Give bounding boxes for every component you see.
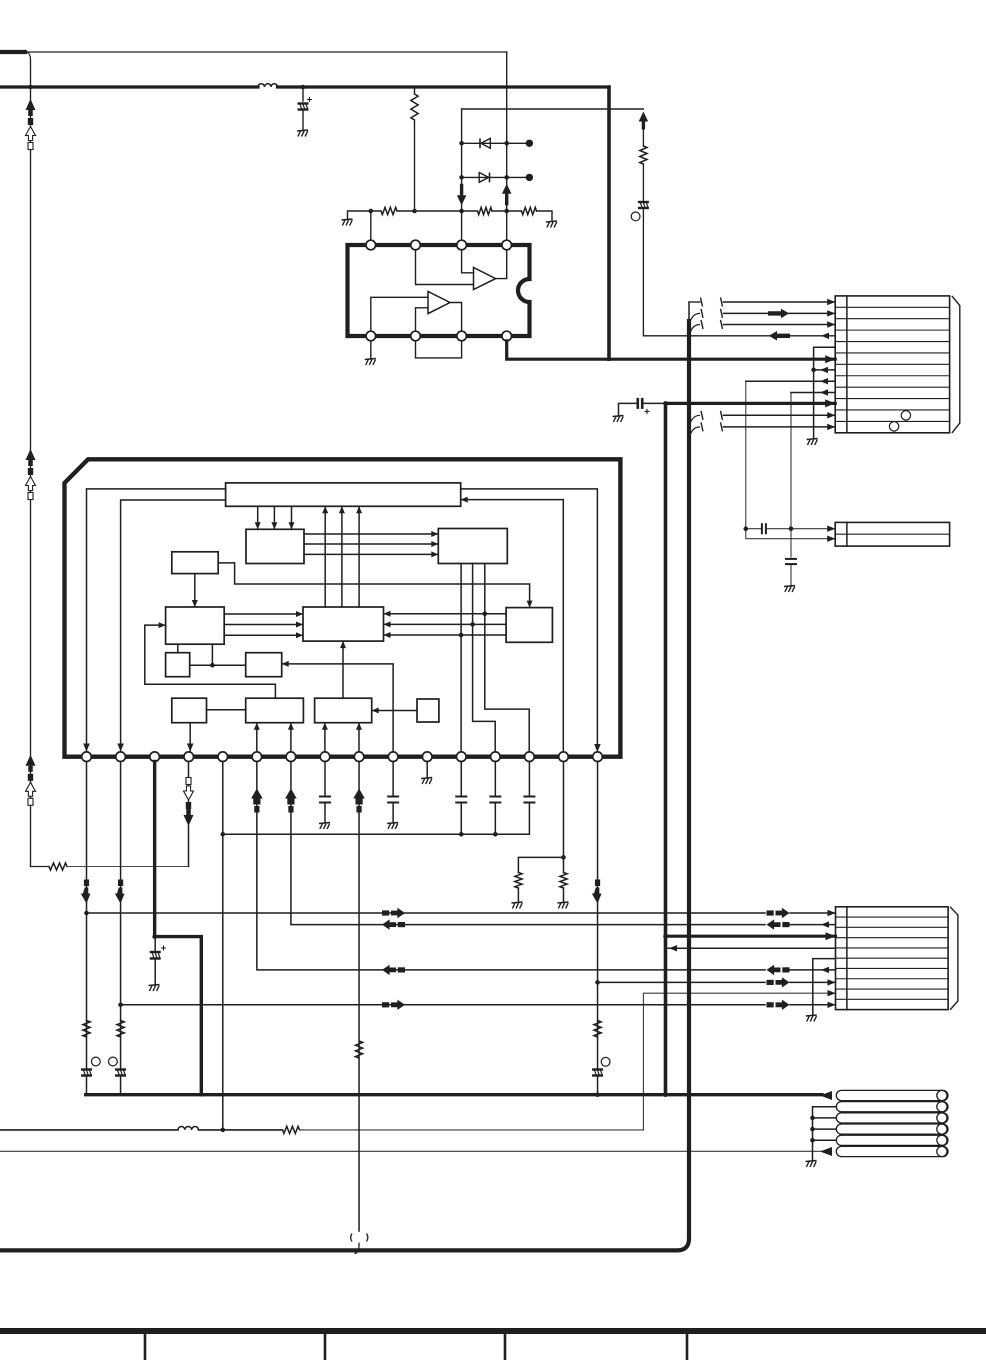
block arrow left row4: [769, 331, 790, 341]
node U2-13/rail: [493, 832, 498, 837]
fat arrow left row6 (mid): [382, 965, 405, 975]
cable curl left row2: [689, 309, 703, 327]
cable curl left row11: [689, 411, 703, 429]
wire CN3 row3 (thick): [666, 935, 836, 938]
wire U2-14 down: [528, 762, 530, 797]
wire CN1 row9: [791, 392, 835, 394]
wire U2-1 down: [86, 762, 88, 1070]
connector CN3 row lines: [836, 917, 949, 999]
wire top stub (thick): [0, 50, 25, 54]
resistor R6: [83, 1021, 90, 1038]
wire CN1 row2: [724, 312, 836, 314]
wire E to G: [218, 563, 532, 608]
arrow into F: [159, 622, 166, 628]
op-amp A1 triangle: [474, 268, 496, 290]
entry arrow CN1 row3: [827, 321, 835, 327]
wire U2-6 to K: [254, 723, 260, 752]
diode D2 (cathode right): [479, 173, 489, 183]
capacitor C12 (electrolytic): [638, 398, 650, 414]
resistor R8: [49, 863, 67, 870]
node U2-5/bottom line: [220, 1128, 225, 1133]
pin U2-12: [456, 752, 466, 762]
wire U2-15 down: [562, 762, 564, 873]
connector-arrow group U2-4 (down): [184, 778, 194, 827]
terminal dot D1: [526, 140, 533, 147]
node R-branch: [412, 209, 417, 214]
wire U2-9 tail hook: [355, 1243, 360, 1254]
ground R10: [512, 902, 523, 909]
node row8-drop/cap row: [744, 526, 749, 531]
connector CN3 key strip: [846, 907, 848, 1010]
capacitor C14: [785, 559, 797, 564]
capacitor C5 (electrolytic): [150, 952, 161, 959]
signal arrow up U2-7: [285, 789, 297, 813]
wire C5 to ground: [154, 959, 156, 985]
capacitor C2 (feedthrough): [638, 202, 649, 208]
capacitor C3 (feedthrough): [81, 1070, 92, 1076]
signal arrow down U2-1: [81, 880, 91, 904]
exit arrow CN1 row8: [820, 378, 828, 384]
wire caps rail: [223, 833, 529, 835]
ground C7: [387, 823, 398, 830]
wire H-I: [190, 664, 246, 666]
entry arrow CN2 row2: [827, 536, 835, 542]
wire shield vertical x=689 (thick): [0, 319, 689, 1250]
terminal dot D2: [526, 174, 533, 181]
node U2-12/rail: [459, 832, 464, 837]
signal arrow down U2-16: [592, 880, 602, 904]
node bus/C-branch: [301, 85, 306, 90]
ground C5: [149, 985, 160, 992]
block D (center): [303, 607, 384, 641]
resistor R9: [355, 1041, 362, 1058]
wire G-D 3: [384, 632, 507, 638]
capacitor C9: [489, 797, 501, 803]
wire U2-12 down: [460, 762, 462, 797]
arrow into block A: [461, 497, 468, 503]
node 665/bus: [663, 1092, 668, 1097]
exit arrow CN4 pill1: [820, 1091, 832, 1100]
wire C10 to rail: [528, 803, 530, 834]
signal arrow up U2-9: [353, 789, 365, 813]
node C1/GD3: [459, 633, 464, 638]
wire branch 643 lower: [643, 208, 835, 336]
wire thick vertical x=665.5: [664, 403, 668, 1094]
ground C1: [297, 130, 308, 137]
cable curl left row3: [689, 320, 703, 338]
pin U1-2 top: [411, 240, 421, 250]
entry arrow CN1 row11: [827, 412, 835, 418]
block B: [246, 529, 304, 563]
node C2/GD2: [470, 622, 475, 627]
pin U2-15: [559, 752, 569, 762]
wire U2-10 down: [392, 762, 394, 797]
arrow into U2-2: [117, 744, 124, 752]
node D1 left: [459, 141, 464, 146]
resistor R5 (vertical): [640, 146, 647, 164]
entry arrow CN1 row1: [827, 299, 835, 305]
wire CN1 row12: [724, 426, 836, 428]
wire U2-16 down: [597, 762, 599, 1070]
wire C8 to rail: [460, 803, 462, 834]
ground row-left: [342, 219, 353, 226]
block J: [172, 698, 207, 723]
cable tick right row12: [721, 422, 723, 431]
wire CN3 row9 b: [790, 1004, 836, 1006]
fat arrow right row1: [767, 908, 790, 918]
node shield/C5: [152, 934, 157, 939]
wire E to F: [192, 574, 198, 607]
connector CN4 pin 2: [836, 1102, 948, 1112]
wire CN1-row8 drop: [746, 381, 835, 539]
fat arrow right row7: [767, 977, 790, 987]
ground C6: [319, 823, 330, 830]
wire CN3 row1: [87, 912, 766, 914]
signal arrow up U2-6: [251, 789, 263, 813]
cable curl left row1: [689, 298, 703, 307]
frame title block dividers: [145, 1334, 687, 1360]
node U2-16/row7: [595, 980, 600, 985]
wire branch 643 upper: [642, 129, 644, 146]
wire CN1 row11: [724, 414, 836, 416]
resistor R11: [560, 873, 567, 889]
node 665/row3: [663, 934, 668, 939]
wire CN3 row1 b: [790, 912, 836, 914]
op-amp A2 triangle: [428, 292, 450, 314]
pin U1-6 bottom: [411, 331, 421, 341]
wire J to U2-4: [187, 723, 194, 752]
wire U2-10 to I: [283, 664, 393, 752]
ground C14: [784, 586, 795, 593]
entry arrow CN3 row7: [828, 979, 836, 985]
wire R11 to ground: [562, 888, 564, 902]
resistor R2: [381, 207, 397, 214]
connector CN2 row line: [835, 533, 949, 535]
wire CN3 row7: [598, 981, 765, 983]
wire G-D 1: [384, 611, 507, 617]
pin U2-6: [252, 752, 262, 762]
wire row6 to conn3: [790, 969, 836, 971]
connector CN4 pin 6: [836, 1146, 948, 1156]
pin U2-10: [388, 752, 398, 762]
wire F drop: [211, 644, 213, 665]
wire C-U2-14: [485, 564, 529, 753]
block A (top register): [226, 483, 461, 506]
fat arrow left row2: [767, 919, 790, 929]
resistor R7: [117, 1021, 124, 1038]
wire R3-R4: [492, 210, 522, 212]
node left vertical / top bus: [28, 85, 33, 90]
wire A2 in1: [371, 297, 428, 331]
wire A-B 3: [289, 506, 295, 529]
wire A1 in1: [462, 250, 474, 273]
main IC U2 outline: [65, 459, 621, 756]
wire C12 to node: [642, 402, 665, 404]
connector CN2 body: [835, 522, 949, 546]
wire B-C 1: [304, 531, 438, 537]
resistor R12: [594, 1021, 601, 1038]
resistor R10: [515, 873, 522, 889]
pin U2-4: [184, 752, 194, 762]
node U2-1/row1: [84, 911, 89, 916]
cable curl left row12: [689, 422, 703, 440]
wire bottom line 1 right: [300, 1129, 644, 1131]
entry arrow CN3 row3: [826, 932, 836, 940]
resistor R4: [522, 207, 537, 214]
exit arrow conn3 row2: [821, 921, 829, 927]
wire U2-9 to L: [356, 723, 362, 752]
connector CN4 pin 5: [836, 1135, 948, 1145]
frame title block line (thick): [0, 1328, 986, 1334]
wire R8 to U2-4: [67, 866, 189, 868]
wire A to U2-16: [461, 489, 598, 750]
wire CN1 row1: [724, 301, 836, 303]
pin U1-3 top: [457, 240, 467, 250]
node U2-16/bus: [595, 1092, 600, 1097]
signal arrow up (x=643.4): [639, 112, 649, 130]
resistor R3: [478, 207, 493, 214]
wire ground bus (thick): [86, 1093, 822, 1096]
exit arrow CN1 row9: [820, 389, 828, 395]
wire A1 in2: [416, 250, 474, 285]
pin U1-5 bottom: [366, 331, 376, 341]
wire CN1 row3: [724, 324, 836, 326]
pin U2-2: [116, 752, 126, 762]
wire U1-8 output (thick): [507, 341, 836, 359]
pin U2-13: [491, 752, 501, 762]
connector CN1 key strip: [846, 296, 848, 433]
wire R-branch top: [414, 87, 416, 94]
wire CN1 row7: [814, 369, 836, 371]
wire D1 row: [462, 142, 530, 144]
cable tick right row2: [721, 309, 723, 318]
wire C-U2-13: [473, 564, 496, 753]
connector CN3 body: [836, 907, 949, 1010]
wire B-C 2: [304, 541, 438, 547]
wire U2-7 to K: [288, 723, 294, 752]
wire C9 to rail: [494, 803, 496, 834]
wire R-branch down: [414, 120, 416, 211]
inductor L1 on top bus: [258, 84, 278, 87]
wire pin1-top riser: [370, 211, 372, 240]
wire top bus right segment (thick): [278, 85, 610, 88]
exit arrow conn3 row6: [821, 967, 829, 973]
wire bottom line 2: [0, 1150, 822, 1152]
wire row2 to conn3: [790, 924, 836, 926]
wire shield vertical x=689 (thin top): [688, 302, 690, 319]
pin U1-7 bottom: [457, 331, 467, 341]
wire thick row10 net: [666, 402, 836, 405]
wire U1 loop pins6-7: [416, 341, 462, 358]
node CN1 stub/row7: [811, 368, 816, 373]
ground CN3: [806, 1015, 817, 1022]
entry arrow CN1 row12: [827, 424, 835, 430]
wire R4 to ground: [537, 211, 553, 221]
wire CN1-row9 drop: [790, 393, 792, 558]
wire F-H: [177, 644, 179, 653]
connector CN4 pin 4: [836, 1124, 948, 1134]
wire diode ladder: [461, 109, 463, 240]
ground row-right: [546, 221, 557, 228]
diode D1 (cathode left): [480, 138, 490, 148]
wire thick vertical from bus: [607, 87, 611, 359]
node D1 right: [504, 141, 509, 146]
plus mark C5: [161, 946, 166, 951]
node row/pin4-line: [504, 209, 509, 214]
capacitor C1 (feedthrough): [298, 104, 309, 110]
wire U2-3 shield box (thick): [155, 762, 202, 1095]
exit arrow CN3 row4: [669, 945, 677, 951]
arrow into I: [282, 661, 289, 667]
pin U2-9: [354, 752, 364, 762]
ground stub CN3 row5: [813, 959, 836, 1015]
wire top line drop: [506, 52, 508, 240]
pin U1-4 top: [502, 240, 512, 250]
arrow into U2-1: [83, 744, 90, 752]
wire gnd stub left: [348, 211, 382, 219]
wire C6 to ground: [324, 803, 326, 822]
wire U2-6 down: [257, 762, 765, 970]
capacitor C10: [523, 797, 535, 803]
node C12/thick net: [663, 401, 668, 406]
node D2 left: [459, 175, 464, 180]
cable tick right row3: [721, 320, 723, 329]
capacitor C11 (feedthrough): [592, 1070, 603, 1076]
wire R10 to ground: [517, 888, 519, 902]
connector CN4 pin 3: [836, 1113, 948, 1123]
node U2-2/row9: [118, 1003, 123, 1008]
connector CN1 polarity circle 1: [901, 411, 910, 420]
exit arrow CN4 pill6: [820, 1147, 832, 1156]
cable tick right row11: [721, 411, 723, 420]
entry arrow CN1 row2: [827, 310, 835, 316]
wire CN2 row1 left: [746, 528, 761, 530]
wire top bus left segment (thick): [0, 85, 258, 88]
wire CN1 row8: [746, 380, 835, 382]
fat arrow right row9: [767, 1000, 790, 1010]
wire U2-8 to L: [322, 723, 328, 752]
entry arrow CN3 row1: [828, 910, 836, 916]
fat arrow right row9 (mid): [382, 1000, 405, 1010]
signal arrow down (x=461.6): [457, 184, 467, 206]
node row9-drop/CN2 row1: [789, 526, 794, 531]
node U2-15 split: [561, 855, 566, 860]
wire U2-9 down: [358, 762, 360, 1232]
node C3/GD1: [483, 611, 488, 616]
wire A-B 1: [255, 506, 261, 529]
wire CN3 row8: [643, 993, 835, 1130]
block L: [315, 698, 372, 723]
connector CN1 row lines: [835, 307, 949, 421]
wire split left: [518, 857, 563, 872]
connector-arrow group low (up): [26, 755, 36, 806]
pin U2-1: [82, 752, 92, 762]
block K: [246, 698, 304, 723]
exit arrow row4: [821, 333, 829, 339]
fat arrow left row2 (mid): [382, 919, 405, 929]
wire U2-2 down: [120, 762, 122, 1070]
wire U2-5 down: [222, 762, 224, 1130]
wire C-branch: [302, 87, 304, 101]
entry arrow CN3 row9: [828, 1002, 836, 1008]
connector CN1 shell chamfer: [952, 297, 960, 433]
wire C3 to bus: [86, 1076, 88, 1095]
block C: [438, 529, 507, 564]
cable tick right row1: [721, 298, 723, 307]
wire U2-1 to block A: [87, 489, 226, 752]
entry arrow CN2 row1: [827, 526, 835, 532]
wire U2-15 to A: [462, 500, 563, 752]
op-amp IC U1 outline: [348, 245, 530, 336]
ground R11: [557, 902, 568, 909]
ground CN1: [807, 439, 818, 446]
wire D-A 1: [322, 506, 328, 607]
fat arrow left row6: [767, 965, 790, 975]
wire branch 643 mid: [642, 164, 644, 201]
wire CN3 row4: [668, 947, 836, 949]
fat arrow right row1 (mid): [382, 908, 405, 918]
arrow into U2-16: [594, 744, 601, 752]
wire K-F path: [145, 625, 276, 698]
node F-drop/H-I: [210, 663, 215, 668]
capacitor C4 (feedthrough): [115, 1070, 126, 1076]
signal arrow down U2-2: [115, 880, 125, 904]
wire L-D: [340, 641, 346, 698]
wire A2 out: [450, 303, 462, 332]
test point circle: [631, 212, 640, 221]
wire A2 in2: [416, 308, 429, 331]
ground U2-11: [421, 778, 432, 785]
wire U1-5 to ground: [370, 341, 372, 358]
block H: [166, 653, 190, 677]
wire U2-13 down: [494, 762, 496, 797]
resistor R13: [283, 1126, 300, 1133]
connector CN1 body: [835, 296, 949, 433]
connector-arrow group mid (up): [26, 449, 36, 500]
block I: [246, 653, 282, 677]
wire G-D 2: [384, 621, 507, 627]
wire A1 out: [496, 250, 507, 279]
pin U2-5: [218, 752, 228, 762]
wire left vertical: [30, 60, 32, 867]
node U2-5/caps-rail: [220, 832, 225, 837]
connector entry arrow row6: [825, 355, 835, 363]
pin U2-14: [525, 752, 535, 762]
wire ladder-to-branch y=109: [462, 108, 644, 110]
wire D-A 2: [339, 506, 345, 607]
wire hook to left vertical: [27, 52, 31, 60]
ground C12: [613, 416, 624, 423]
wire U2-11 to ground: [426, 762, 428, 778]
wire C4 to bus: [120, 1076, 122, 1095]
wire C11 to bus: [597, 1076, 599, 1095]
resistor R1 (vertical): [411, 94, 418, 120]
capacitor C6: [319, 797, 331, 803]
test point circle: [91, 1057, 100, 1066]
connector CN1 polarity circle 2: [889, 422, 898, 431]
ground stub CN1 row5: [814, 347, 836, 437]
connector entry arrow row10: [825, 399, 835, 407]
test point circle: [109, 1057, 118, 1066]
wire C1 to ground: [302, 110, 304, 131]
pin U2-3: [150, 752, 160, 762]
pin U1-1 top: [366, 240, 376, 250]
fat arrow right CN1 row2: [768, 309, 789, 319]
connector CN3 shell chamfer: [951, 907, 958, 1009]
wire A-B 2: [271, 506, 277, 529]
wire C7 to ground: [392, 803, 394, 822]
wire U2-2 to block A: [121, 500, 226, 752]
